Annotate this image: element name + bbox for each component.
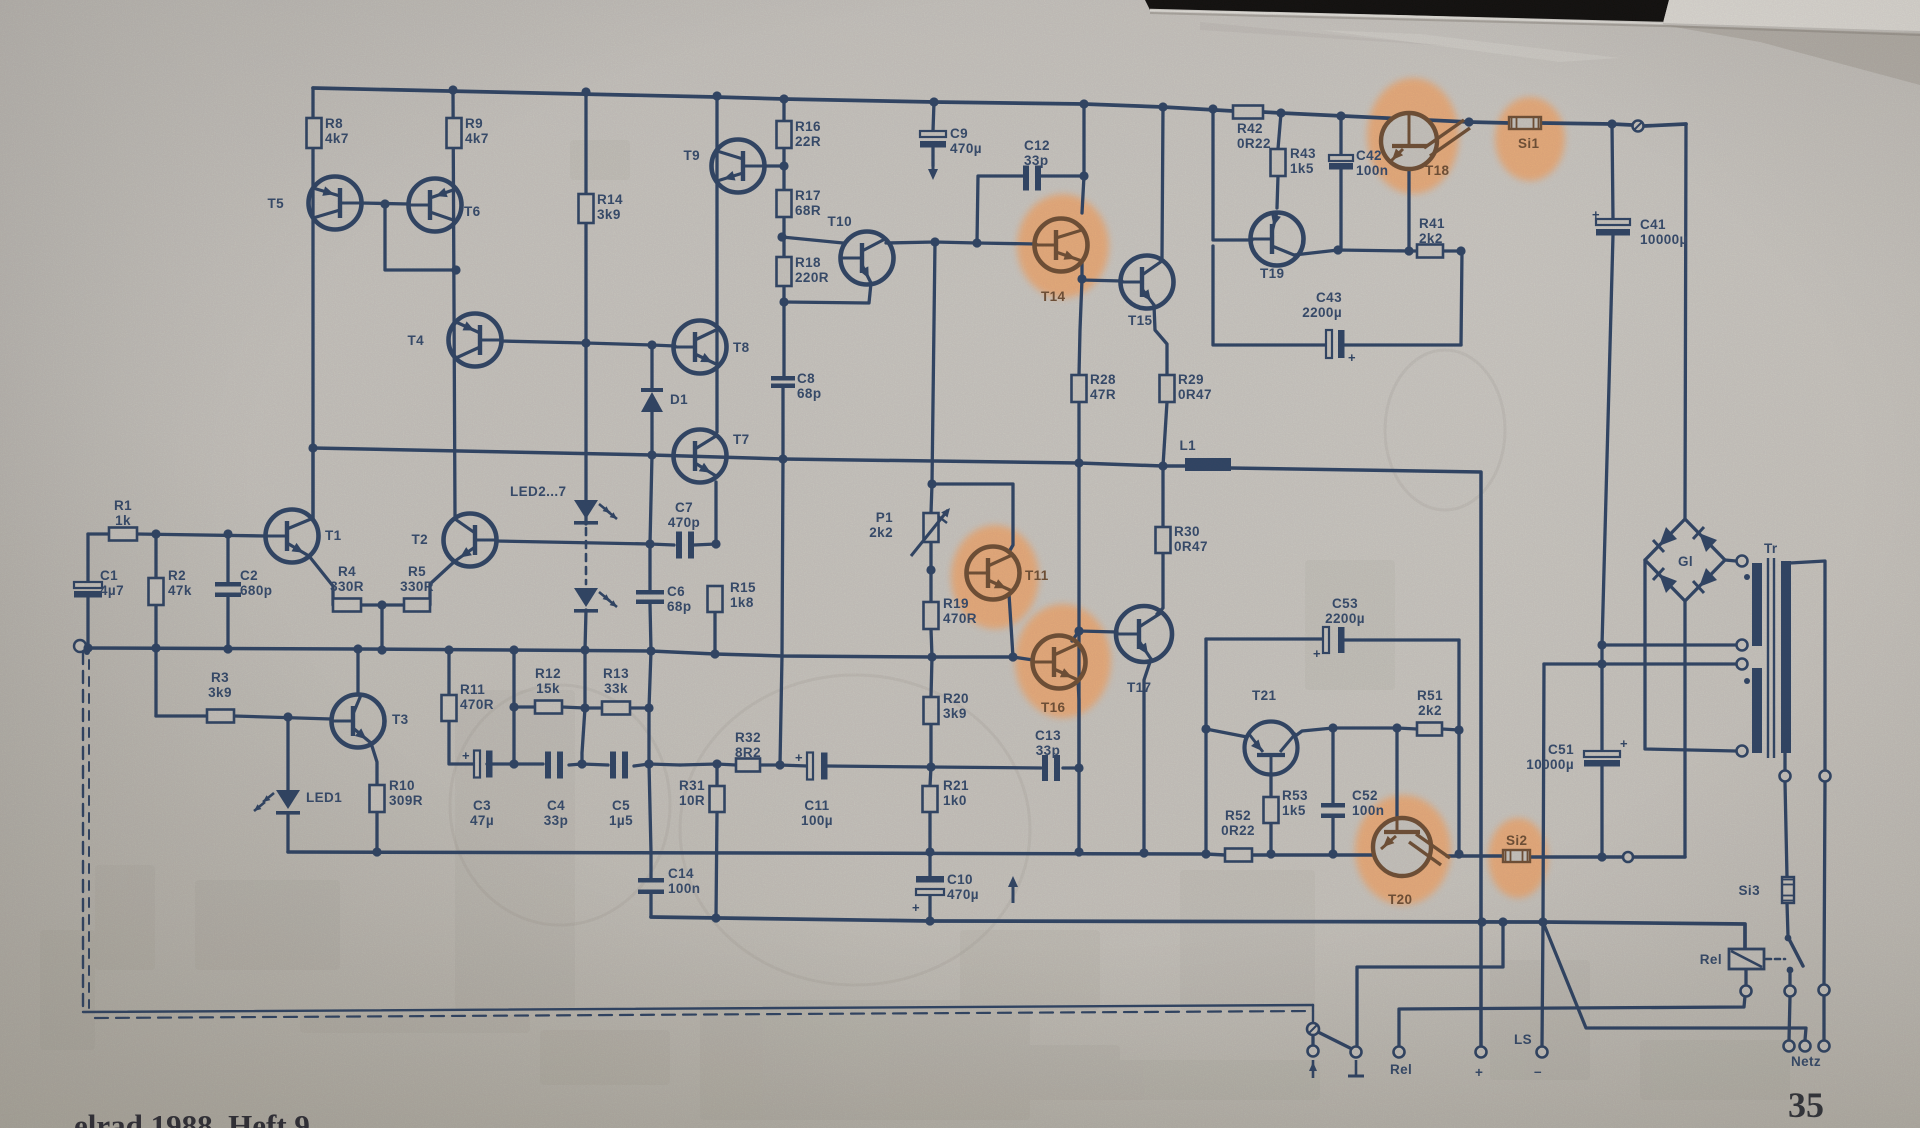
label C14 bbox=[668, 866, 700, 896]
wire T4 base row bbox=[501, 341, 675, 346]
label R17 bbox=[795, 188, 821, 218]
label T1 bbox=[325, 528, 342, 543]
label R42 bbox=[1237, 121, 1271, 151]
junction node T6 collector bbox=[451, 265, 460, 274]
capacitor C9 bbox=[920, 131, 946, 148]
capacitor C14 bbox=[638, 878, 664, 894]
wire T10 collector row to T14 base bbox=[886, 242, 1036, 244]
junction node top rail T19 loop bbox=[1208, 104, 1217, 113]
label R51 bbox=[1417, 688, 1443, 718]
wire T16 collector to T17 base bbox=[1072, 631, 1117, 641]
dashed border end drop bbox=[1312, 1005, 1314, 1023]
wire T17 emitter bbox=[1144, 659, 1151, 853]
label R4 bbox=[330, 564, 364, 594]
junction node R42 R43 bbox=[1276, 108, 1285, 117]
wire base node to T6 collector column bbox=[385, 204, 456, 270]
label Rel bbox=[1700, 952, 1722, 967]
junction node T4 base bbox=[581, 338, 590, 347]
junction node bottom rail C10 bbox=[925, 916, 934, 925]
capacitor C2 bbox=[215, 582, 241, 597]
junction node top rail T14 bbox=[1079, 99, 1088, 108]
label C5 bbox=[609, 798, 633, 828]
wire C12 right lead to T14 collector bbox=[1041, 176, 1084, 213]
transistor T7 bbox=[674, 430, 727, 483]
junction node output rail R29 bbox=[1158, 461, 1167, 470]
terminal Rel bbox=[1394, 1047, 1405, 1058]
wire bridge left to primary bottom bbox=[1645, 560, 1736, 751]
label C12 bbox=[1024, 138, 1050, 168]
label C10 bbox=[947, 872, 979, 902]
wire D1-C6-C14 column bbox=[649, 455, 652, 917]
junction node C12 left bbox=[972, 238, 981, 247]
wire T21 left column bbox=[1204, 639, 1207, 854]
arrow above C10 bbox=[1008, 876, 1018, 903]
junction node C7 left bbox=[645, 539, 654, 548]
highlight over T16 bbox=[1015, 604, 1111, 718]
label LED2 bbox=[510, 484, 566, 499]
transformer terminal 2 bbox=[1737, 640, 1748, 651]
dashed border left vertical bbox=[82, 652, 84, 1012]
junction node T21 base T20 bbox=[1392, 723, 1401, 732]
transistor T20 bbox=[1373, 818, 1450, 876]
label Si1 bbox=[1518, 136, 1540, 151]
resistor R16 bbox=[777, 121, 792, 148]
capacitor C3 bbox=[462, 748, 493, 778]
switch contact dot lower bbox=[1787, 967, 1794, 974]
wire R43 to T19 collector bbox=[1277, 176, 1278, 208]
wire R9-T6-T4-T2 column bbox=[453, 90, 455, 516]
wire T1 emitter to R4 bbox=[309, 556, 333, 605]
junction node output rail left bbox=[308, 443, 317, 452]
wire to primary mid lower bbox=[1544, 662, 1736, 665]
wire LED1 to lower rail bbox=[286, 815, 289, 852]
wire T3 collector bbox=[356, 649, 359, 695]
label L1 bbox=[1179, 438, 1196, 453]
wire input to R1 bbox=[88, 532, 109, 535]
wire bridge right to primary top bbox=[1725, 560, 1736, 561]
transistor T17 bbox=[1116, 606, 1172, 662]
label LED1 bbox=[306, 790, 342, 805]
label T16 bbox=[1041, 700, 1066, 715]
transistor T8 bbox=[674, 321, 727, 374]
junction node R12 left bbox=[509, 702, 518, 711]
transistor T19 bbox=[1251, 212, 1304, 266]
junction node top rail R9 bbox=[448, 85, 457, 94]
wire R41 right to loop bbox=[1443, 251, 1462, 345]
transistor T3 bbox=[332, 695, 385, 748]
wire T3 base node down to LED1 bbox=[286, 717, 289, 790]
label R3 bbox=[208, 670, 232, 700]
label T21 bbox=[1252, 688, 1277, 703]
junction node mid rail C2 bbox=[223, 644, 232, 653]
wire T15 collector bbox=[1162, 107, 1163, 258]
transformer terminal 3 bbox=[1737, 659, 1748, 670]
label R29 bbox=[1178, 372, 1212, 402]
wire right column x1459 bbox=[1457, 640, 1460, 854]
wire secondary top bbox=[1790, 561, 1825, 1040]
wire bottom rail y921 bbox=[651, 917, 1745, 949]
wire C11 to R21 node bbox=[827, 766, 1041, 768]
resistor R19 bbox=[924, 602, 939, 629]
label R43 bbox=[1290, 146, 1316, 176]
wire T20 collector column bbox=[1395, 728, 1398, 831]
label R10 bbox=[389, 778, 423, 808]
junction node C7 right bbox=[711, 539, 720, 548]
junction node T21 base left bbox=[1201, 724, 1210, 733]
junction node cap row R21 bbox=[926, 762, 935, 771]
transistor T5 bbox=[309, 177, 362, 230]
wire T1 collector feedback bbox=[311, 448, 314, 519]
ground symbol bbox=[1348, 1060, 1364, 1076]
resistor R8 bbox=[307, 118, 322, 148]
junction node mid rail T3 bbox=[353, 644, 362, 653]
label R41 bbox=[1419, 216, 1445, 246]
junction node T17 base bbox=[1074, 626, 1083, 635]
wire T9 base bbox=[764, 164, 784, 167]
transistor T21 bbox=[1245, 722, 1298, 775]
junction node lower rail C52 bbox=[1328, 849, 1337, 858]
label R30 bbox=[1174, 524, 1208, 554]
wire T5 base to T6 base bbox=[361, 203, 409, 204]
label R15 bbox=[730, 580, 756, 610]
LED LED1 bbox=[254, 790, 300, 815]
junction node primary mid lower bbox=[1597, 659, 1606, 668]
wire T18 collector stub bbox=[1407, 114, 1410, 121]
resistor R12 bbox=[535, 701, 562, 714]
dashed border bottom solid bbox=[83, 1005, 1313, 1012]
label C43 bbox=[1302, 290, 1342, 320]
junction node mid rail R4R5 bbox=[377, 645, 386, 654]
label R28 bbox=[1090, 372, 1116, 402]
junction node R41 right bbox=[1456, 246, 1465, 255]
transistor T1 bbox=[266, 510, 319, 563]
wire T11 collector loop bbox=[932, 484, 1013, 552]
resistor R21 bbox=[923, 786, 938, 812]
transistor T2 bbox=[444, 514, 497, 567]
capacitor C5 bbox=[610, 752, 628, 779]
label R20 bbox=[943, 691, 969, 721]
wire T9-T8-T7 column bbox=[715, 96, 717, 654]
label R53 bbox=[1282, 788, 1308, 818]
junction node T10 collector bbox=[930, 237, 939, 246]
resistor R5 bbox=[404, 599, 430, 612]
potentiometer P1 bbox=[911, 508, 950, 556]
transistor T6 bbox=[409, 179, 462, 232]
wire cap row C3-C4-C5 bbox=[487, 764, 680, 766]
resistor R1 bbox=[109, 528, 137, 541]
terminal stub below connector bbox=[1311, 1035, 1314, 1046]
label R14 bbox=[597, 192, 623, 222]
wire C52 column bbox=[1331, 728, 1334, 854]
LED LED3 of string bbox=[574, 588, 617, 613]
resistor R9 bbox=[447, 118, 462, 148]
wire R2 column bbox=[154, 534, 157, 648]
wire col x584 led bottom bbox=[582, 650, 585, 764]
wire T16 emitter bbox=[1078, 680, 1079, 768]
switch contact dot bbox=[1785, 935, 1792, 942]
wire Rel wire bbox=[1399, 996, 1745, 1046]
paper crease bbox=[1200, 22, 1620, 62]
label terminal minus bbox=[1534, 1064, 1542, 1079]
resistor R10 bbox=[370, 785, 385, 812]
wire R16-R17-R18-C8 column bbox=[780, 99, 784, 765]
junction node D1 top bbox=[647, 340, 656, 349]
wire bridge diamond bbox=[1645, 519, 1725, 601]
terminal ground bbox=[1351, 1047, 1362, 1058]
wire T3 emitter to R10 bbox=[371, 743, 377, 785]
label C52 bbox=[1352, 788, 1384, 818]
wire R51 to right column bbox=[1442, 729, 1459, 730]
label T7 bbox=[733, 432, 750, 447]
fuse Si1 bbox=[1509, 117, 1541, 129]
junction node lower rail R10 bbox=[372, 847, 381, 856]
junction node T18 base bbox=[1404, 246, 1413, 255]
wire T14 collector to top rail bbox=[1082, 104, 1085, 176]
label Tr bbox=[1764, 541, 1778, 556]
highlight over T20 bbox=[1355, 795, 1451, 905]
junction node cap row R32 bbox=[775, 760, 784, 769]
terminal Netz circles bbox=[1784, 1041, 1830, 1052]
label R5 bbox=[400, 564, 434, 594]
label T2 bbox=[411, 532, 428, 547]
label R21 bbox=[943, 778, 969, 808]
terminal ring secondary left bbox=[1780, 771, 1791, 782]
capacitor C51 bbox=[1584, 736, 1628, 767]
highlight over T18 bbox=[1367, 78, 1459, 194]
dashed border bottom dashed bbox=[95, 1011, 1313, 1018]
fuse Si3 bbox=[1782, 877, 1794, 903]
resistor R51 bbox=[1417, 723, 1442, 736]
capacitor C4 bbox=[545, 752, 563, 779]
transformer Tr windings bbox=[1744, 558, 1791, 758]
input connector bbox=[74, 640, 90, 655]
junction node top rail R16 bbox=[779, 94, 788, 103]
resistor R32 bbox=[736, 759, 760, 772]
wire R1 to T1 base bbox=[137, 534, 266, 536]
junction node lower rail T16 bbox=[1074, 847, 1083, 856]
capacitor C1 bbox=[74, 582, 102, 598]
label T3 bbox=[392, 712, 409, 727]
terminal minus LS bbox=[1537, 1047, 1548, 1058]
label R13 bbox=[603, 666, 629, 696]
junction node primary mid upper bbox=[1597, 640, 1606, 649]
terminal ring mains left bbox=[1785, 986, 1796, 997]
label T8 bbox=[733, 340, 750, 355]
wire R4R5 node down bbox=[380, 605, 383, 650]
wire output rail with L1 bbox=[313, 448, 1185, 466]
wire C1 column bbox=[86, 534, 89, 648]
capacitor C53 bbox=[1313, 627, 1345, 661]
junction node lower rail R51 bbox=[1454, 849, 1463, 858]
junction node top rail T9 bbox=[712, 91, 721, 100]
relay Rel box bbox=[1729, 949, 1764, 969]
wire C12 left lead bbox=[977, 176, 1023, 243]
terminal ring relay bbox=[1741, 986, 1752, 997]
label T19 bbox=[1260, 266, 1284, 281]
wire R42R43 node bbox=[1278, 113, 1281, 149]
wire R5 to T2 emitter bbox=[430, 561, 455, 605]
transistor T16 bbox=[1033, 636, 1086, 689]
transistor T9 bbox=[712, 140, 765, 193]
label T10 bbox=[828, 214, 852, 229]
resistor R29 bbox=[1160, 375, 1175, 402]
label Gl bbox=[1678, 554, 1693, 569]
wire col x514 bbox=[512, 650, 515, 764]
junction node C42 bottom bbox=[1333, 245, 1342, 254]
wire T21 collector to R53 bbox=[1269, 775, 1272, 854]
junction node mid rail x514 bbox=[509, 645, 518, 654]
wire C42 column bbox=[1339, 116, 1342, 250]
wire R29 to output rail bbox=[1163, 402, 1167, 466]
capacitor C43 bbox=[1326, 330, 1356, 365]
junction node lower rail T21 bbox=[1201, 849, 1210, 858]
junction node lower rail R21 bbox=[925, 847, 934, 856]
junction node output rail T7 bbox=[778, 454, 787, 463]
junction node mid rail C6 bbox=[646, 646, 655, 655]
wire T14 emitter to T15 base bbox=[1082, 280, 1122, 281]
wire R12 row bbox=[514, 707, 649, 708]
wire top supply rail bbox=[313, 88, 1233, 111]
junction node T14 emitter bbox=[1077, 274, 1086, 283]
wire T21 base row right bbox=[1294, 728, 1417, 737]
transistor T15 bbox=[1121, 256, 1174, 309]
label C9 bbox=[950, 126, 982, 156]
junction node output rail D1 bbox=[647, 450, 656, 459]
resistor R4 bbox=[333, 599, 361, 612]
wire mains switch blade bbox=[1789, 939, 1803, 966]
junction node top rail R14 bbox=[581, 87, 590, 96]
capacitor C12 bbox=[1023, 166, 1041, 191]
transformer terminal 4 bbox=[1737, 746, 1748, 757]
wire R31 column bbox=[716, 764, 717, 918]
label T9 bbox=[683, 148, 700, 163]
label R52 bbox=[1221, 808, 1255, 838]
resistor R11 bbox=[442, 695, 457, 721]
page footer text bbox=[74, 1108, 310, 1128]
label Netz bbox=[1791, 1054, 1821, 1069]
label R12 bbox=[535, 666, 561, 696]
wire R11 column bbox=[449, 650, 474, 764]
junction node T9 base bbox=[779, 161, 788, 170]
connector on top rail bbox=[1633, 121, 1644, 132]
label Si2 bbox=[1506, 833, 1527, 848]
wire long mid rail bbox=[82, 648, 1013, 657]
resistor R30 bbox=[1156, 527, 1171, 553]
label T5 bbox=[267, 196, 284, 211]
transistor T14 bbox=[1035, 219, 1088, 272]
capacitor C8 bbox=[771, 376, 795, 388]
wire mains feed diagonal bbox=[1543, 922, 1806, 1040]
wire bridge bottom column bbox=[1683, 601, 1686, 857]
wire LS column bbox=[1542, 664, 1544, 1046]
label T14 bbox=[1041, 289, 1066, 304]
capacitor C42 bbox=[1329, 155, 1353, 170]
resistor R42 bbox=[1233, 106, 1263, 119]
label C4 bbox=[544, 798, 568, 828]
wire T21 top row C53 bbox=[1206, 639, 1459, 640]
highlight over Si1 bbox=[1495, 97, 1565, 181]
label C3 bbox=[470, 798, 494, 828]
junction node bottom rail LS bbox=[1538, 917, 1547, 926]
wire R8-T5-T1 column bbox=[311, 88, 314, 519]
resistor R28 bbox=[1072, 375, 1087, 402]
junction node mid rail T16 base bbox=[1008, 652, 1017, 661]
junction node mid rail R2 bbox=[151, 643, 160, 652]
label C2 bbox=[240, 568, 272, 598]
wire T11 emitter to T16 base node bbox=[1009, 594, 1033, 660]
inductor L1 bbox=[1185, 458, 1231, 471]
wire C13 right to T16 emitter column bbox=[1063, 766, 1079, 769]
faint show-through artifacts bbox=[40, 140, 1790, 1120]
label terminal LS bbox=[1514, 1032, 1532, 1047]
resistor R3 bbox=[207, 710, 234, 723]
arrow symbol below terminal bbox=[1309, 1060, 1317, 1078]
bridge rectifier Gl diodes bbox=[1653, 527, 1717, 593]
capacitor C10 bbox=[912, 876, 944, 915]
label T6 bbox=[464, 204, 481, 219]
junction node mid rail LED bbox=[580, 645, 589, 654]
highlight over Si2 bbox=[1488, 818, 1548, 898]
dashed border left vertical inner bbox=[88, 660, 90, 1008]
label R11 bbox=[460, 682, 494, 712]
junction node R18 bottom bbox=[779, 297, 788, 306]
page number 35 bbox=[1788, 1085, 1824, 1125]
wire R10 to lower rail bbox=[375, 812, 378, 852]
switch blade at border terminal bbox=[1318, 1032, 1352, 1049]
transistor T4 bbox=[449, 314, 502, 367]
label C51 bbox=[1526, 742, 1574, 772]
junction node top rail T15 bbox=[1158, 102, 1167, 111]
resistor R14 bbox=[579, 194, 594, 223]
label R8 bbox=[325, 116, 349, 146]
label P1 bbox=[869, 510, 893, 540]
connector at border end bbox=[1307, 1023, 1319, 1035]
label C53 bbox=[1325, 596, 1365, 626]
wire R3 row bbox=[156, 716, 331, 719]
resistor R52 bbox=[1225, 849, 1252, 862]
capacitor C13 bbox=[1042, 755, 1060, 781]
resistor R31 bbox=[710, 786, 725, 812]
wire lower rail y852 bbox=[288, 852, 1685, 857]
junction node cap row C5 bbox=[644, 759, 653, 768]
wire relay dashes bbox=[1766, 958, 1785, 961]
wire bridge top column bbox=[1685, 124, 1686, 519]
wire top rail Si1 to bridge corner bbox=[1541, 123, 1686, 126]
terminal plus bbox=[1476, 1047, 1487, 1058]
white paper corner top right bbox=[1663, 0, 1920, 31]
wire C7 right to T7 emitter column bbox=[694, 544, 716, 545]
resistor R13 bbox=[602, 702, 630, 715]
wire LED string dashed bbox=[585, 528, 588, 584]
wire C41-C51 column bbox=[1602, 124, 1613, 857]
resistor R17 bbox=[777, 190, 792, 217]
transformer terminal 1 bbox=[1737, 556, 1748, 567]
resistor R20 bbox=[924, 697, 939, 724]
label C1 bbox=[100, 568, 124, 598]
label R1 bbox=[114, 498, 132, 528]
label Si3 bbox=[1739, 883, 1761, 898]
label T20 bbox=[1388, 892, 1412, 907]
wire T10 emitter to R18 bbox=[784, 283, 871, 303]
junction node output rail R28 bbox=[1074, 458, 1083, 467]
resistor R53 bbox=[1264, 797, 1279, 823]
junction node cap row C3C4 bbox=[509, 759, 518, 768]
label C13 bbox=[1035, 728, 1061, 758]
junction node R4 R5 bbox=[377, 600, 386, 609]
junction node T14 collector bbox=[1079, 171, 1088, 180]
label terminal plus bbox=[1475, 1065, 1483, 1080]
label T4 bbox=[407, 333, 424, 348]
